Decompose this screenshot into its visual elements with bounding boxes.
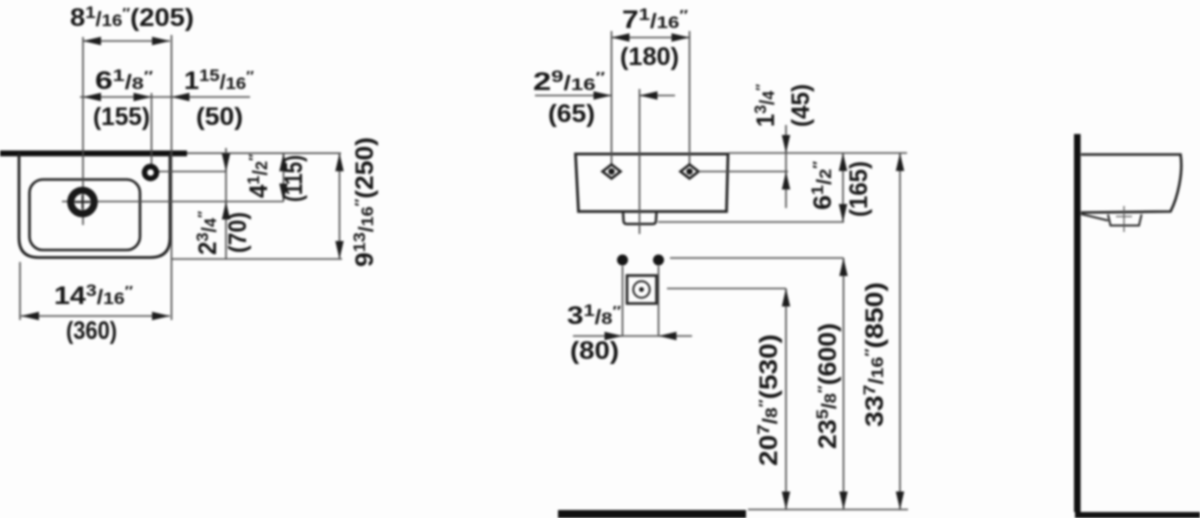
floor bar (side view) [1075, 512, 1200, 518]
drain pipe leader to 530-dim [667, 288, 786, 290]
dim line 70 (tap to drain, vertical) [225, 148, 227, 259]
basin profile (side) [1081, 155, 1181, 213]
right dot extension line [658, 266, 660, 336]
tap hole leader to right [158, 171, 226, 173]
drain leader line to right dims [62, 201, 284, 203]
dim line 530 (floor to drain pipe) [785, 289, 787, 510]
basin outer outline (plan) [19, 153, 170, 258]
drain crosshair vertical / extension line [82, 37, 84, 225]
wall extension thin line to right dims [187, 152, 341, 154]
dim line 250 (vertical right of plan) [339, 153, 341, 259]
left fixing hole extension line [611, 31, 613, 165]
svg-text:235/8″(600): 235/8″(600) [813, 323, 842, 449]
drain pipe circle [633, 281, 649, 297]
drain centerline (front) [639, 89, 641, 234]
wall bar (side view) [1074, 134, 1081, 512]
svg-text:(165): (165) [845, 161, 873, 217]
basin outline (front) [576, 154, 729, 212]
svg-text:(360): (360) [66, 317, 117, 345]
svg-text:61/8″: 61/8″ [95, 66, 153, 95]
floor bar (middle) [558, 510, 746, 518]
svg-text:(80): (80) [570, 337, 619, 365]
dim line 180 (front top) [612, 37, 690, 39]
basin inner bowl (plan) [30, 180, 141, 251]
dim line 115 (wall to drain, vertical) [283, 153, 285, 201]
svg-text:115/16″: 115/16″ [184, 66, 254, 95]
svg-text:71/16″: 71/16″ [622, 5, 688, 34]
drain centerline (side) [1123, 206, 1125, 232]
left dot extension line [622, 266, 624, 336]
dim line 165 (rim to drain bottom, vertical) [842, 153, 844, 222]
tap hole (plan) [145, 167, 157, 179]
dots leader to 600-dim [670, 257, 844, 259]
drain outlet (front) [623, 212, 657, 225]
right fixing dot [653, 255, 664, 266]
svg-text:13/4″: 13/4″ [751, 84, 780, 127]
svg-text:(50): (50) [196, 103, 243, 131]
rim leader to right dims [729, 152, 907, 154]
svg-text:(115): (115) [280, 155, 308, 202]
svg-text:207/8″(530): 207/8″(530) [754, 334, 783, 466]
svg-text:61/2″: 61/2″ [808, 161, 837, 210]
svg-text:29/16″: 29/16″ [533, 67, 605, 96]
svg-text:81/16″(205): 81/16″(205) [70, 3, 194, 32]
svg-text:31/8″: 31/8″ [567, 301, 621, 330]
svg-text:913/16″(250): 913/16″(250) [350, 137, 379, 267]
dim line 45 (rim to holes, vertical) [785, 125, 787, 208]
floor leader line [748, 509, 908, 511]
svg-text:41/2″: 41/2″ [244, 154, 273, 198]
svg-text:(65): (65) [548, 100, 595, 128]
svg-text:(180): (180) [620, 43, 679, 71]
left fixing hole (front, diamond) [603, 165, 621, 179]
svg-text:337/16″(850): 337/16″(850) [860, 282, 889, 427]
drain fitting (plan) [71, 190, 94, 213]
right fixing hole extension line [689, 31, 691, 165]
svg-text:(45): (45) [787, 84, 815, 127]
right fixing hole (front, diamond) [681, 165, 699, 179]
svg-text:143/16″: 143/16″ [54, 281, 133, 310]
dim line 155 / 50 (plan second row) [80, 96, 250, 98]
svg-text:23/4″: 23/4″ [193, 211, 222, 255]
dim line 850 (floor to rim) [899, 153, 901, 510]
left fixing dot [617, 255, 628, 266]
dim line 360 (plan bottom) [19, 262, 21, 320]
wall bar (plan view) [0, 151, 187, 157]
svg-text:(70): (70) [224, 212, 252, 253]
extension line right edge basin [171, 35, 173, 320]
bottom leader (plan, basin rear edge) [172, 258, 342, 260]
drain pipe box [627, 276, 657, 304]
svg-text:(155): (155) [93, 103, 150, 131]
drain bottom leader [658, 221, 844, 223]
dim line 65 (left hole to drain cl) [535, 95, 612, 97]
dim line 600 (floor to dots) [843, 258, 845, 510]
leader from right hole to 45-dim [698, 171, 788, 173]
dim line 205 (plan top) [83, 40, 170, 42]
dim line 80 (dots spacing) [573, 335, 692, 337]
tap hole extension line [151, 93, 153, 167]
drain trap (side) [1081, 214, 1108, 221]
